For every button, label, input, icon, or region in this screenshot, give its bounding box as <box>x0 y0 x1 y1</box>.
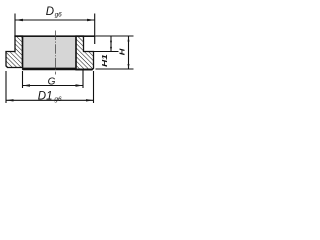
svg-text:G: G <box>48 76 56 87</box>
dimension G: extension line left <box>22 71 24 88</box>
left sectioned wall + flange (hatched) <box>6 36 23 68</box>
dimension H1: bottom arrowhead <box>110 47 112 52</box>
dimension H: dimension line <box>128 36 130 69</box>
dimension H1: dimension line <box>110 36 112 52</box>
dimension H: extension line bottom <box>96 68 134 70</box>
svg-text:H1: H1 <box>100 54 109 67</box>
bore edge right <box>75 36 77 70</box>
bottom face edge (thick) <box>23 68 77 71</box>
dimension H1: top arrowhead <box>110 37 112 42</box>
bore edge left <box>22 36 24 68</box>
right outer edge (short, to chamfer) <box>94 36 96 44</box>
svg-text:D1: D1 <box>38 91 53 103</box>
dimension D1: extension line left <box>5 71 7 103</box>
svg-text:D: D <box>46 6 54 18</box>
dimension D1: right arrowhead <box>86 99 94 101</box>
dimension D: extension line left <box>14 14 16 36</box>
dimension H1: extension line bottom (step level) <box>84 51 119 53</box>
dimension G: left arrowhead <box>23 84 31 86</box>
svg-text:H: H <box>117 48 126 56</box>
top face edge <box>14 35 95 37</box>
svg-text:g6: g6 <box>55 11 63 18</box>
dimension D1: left arrowhead <box>6 99 14 101</box>
dimension G: extension line right <box>82 71 84 89</box>
dimension H: bottom arrowhead <box>128 64 130 69</box>
right sectioned wall + flange (hatched) <box>76 36 94 70</box>
dimension G: dimension line <box>23 85 84 87</box>
dimension D1: dimension line <box>6 99 94 101</box>
dimension D: extension line right <box>94 14 96 36</box>
dimension H: top arrowhead <box>128 37 130 42</box>
dimension D: right arrowhead <box>87 19 95 22</box>
centerline (dash-dot) <box>55 31 57 75</box>
bottom step edge left <box>22 68 24 70</box>
svg-text:g6: g6 <box>54 96 62 103</box>
dimension G: right arrowhead <box>76 84 84 86</box>
dimension D: left arrowhead <box>15 19 23 22</box>
dimension D: dimension line <box>15 19 95 21</box>
dimension D1: extension line right <box>93 71 95 103</box>
bushing bore front face (gray fill) <box>23 36 77 69</box>
dimension H: extension line top <box>96 35 134 37</box>
